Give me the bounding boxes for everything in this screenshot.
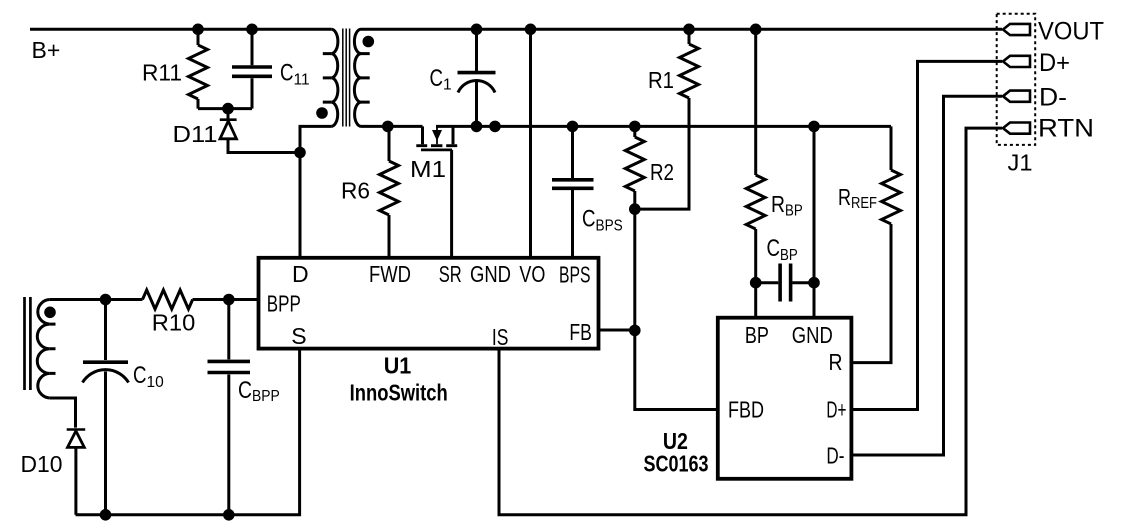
svg-text:FWD: FWD (369, 261, 411, 287)
svg-text:RTN: RTN (1038, 115, 1094, 143)
svg-text:FBD: FBD (728, 397, 764, 423)
svg-text:GND: GND (470, 261, 511, 287)
svg-text:R10: R10 (152, 310, 196, 336)
svg-text:D-: D- (1039, 84, 1067, 112)
svg-text:RREF: RREF (838, 184, 877, 212)
svg-text:S: S (291, 323, 306, 349)
svg-text:D11: D11 (173, 121, 218, 147)
svg-text:R11: R11 (142, 60, 182, 86)
svg-text:C11: C11 (280, 59, 310, 88)
svg-text:BP: BP (745, 322, 769, 348)
svg-text:SR: SR (439, 261, 462, 287)
svg-text:CBPP: CBPP (238, 377, 280, 405)
svg-text:BPS: BPS (559, 262, 591, 288)
svg-text:FB: FB (569, 319, 592, 345)
svg-text:R: R (829, 349, 843, 375)
svg-text:D-: D- (826, 443, 844, 469)
svg-text:CBP: CBP (767, 235, 798, 264)
svg-text:M1: M1 (410, 156, 446, 182)
svg-text:RBP: RBP (771, 191, 803, 220)
svg-text:U1: U1 (384, 353, 412, 379)
svg-text:R6: R6 (341, 178, 370, 204)
svg-text:D10: D10 (21, 451, 63, 477)
svg-text:IS: IS (492, 324, 509, 350)
svg-text:R2: R2 (650, 159, 674, 185)
svg-text:B+: B+ (32, 37, 61, 63)
svg-text:GND: GND (792, 322, 833, 348)
svg-text:C10: C10 (133, 362, 164, 391)
svg-text:SC0163: SC0163 (644, 451, 709, 477)
svg-text:R1: R1 (648, 67, 674, 93)
svg-text:D: D (292, 261, 309, 287)
svg-text:J1: J1 (1008, 150, 1033, 176)
svg-text:VOUT: VOUT (1038, 18, 1104, 46)
svg-text:BPP: BPP (267, 291, 301, 317)
svg-text:CBPS: CBPS (582, 206, 623, 235)
svg-text:D+: D+ (826, 397, 846, 423)
svg-text:InnoSwitch: InnoSwitch (350, 380, 448, 406)
svg-text:C1: C1 (430, 65, 452, 94)
svg-text:D+: D+ (1039, 49, 1070, 77)
svg-text:VO: VO (519, 261, 545, 287)
